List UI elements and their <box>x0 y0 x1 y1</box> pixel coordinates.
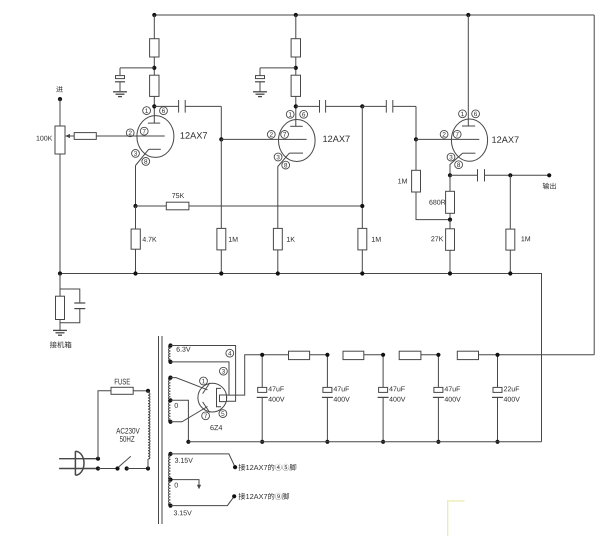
capacitor filter 3 47uF <box>378 353 389 444</box>
terminal heater 12AX7 pins 4-5 <box>233 465 237 469</box>
label 47uF 400V <box>445 386 461 401</box>
rectifier 6Z4 <box>198 383 227 413</box>
node plate V1 <box>152 104 156 108</box>
wire fuse to transformer <box>133 390 148 392</box>
label 1M NFB <box>372 237 381 242</box>
wire ground rail <box>60 274 542 442</box>
wire cathode V1 down <box>135 166 137 207</box>
wire 3.15V upper to terminal <box>171 454 236 467</box>
wire HV centertap to ground <box>171 400 189 442</box>
wire B+ feed from filter <box>498 354 595 356</box>
node plug lower <box>96 466 100 470</box>
node decoupling tap V1 <box>152 66 156 70</box>
node centertap ground <box>186 440 190 444</box>
node plate V2 <box>294 104 298 108</box>
label heater terminal A (CJK) <box>239 464 297 471</box>
switch mains <box>98 456 148 470</box>
pin labels 6Z4 <box>200 349 234 419</box>
wire grid V2 <box>221 138 306 140</box>
ground chassis <box>53 330 67 335</box>
label 6Z4 <box>210 425 222 430</box>
wire cathode V2 down <box>277 167 279 229</box>
ground decoupling V2 <box>253 92 267 97</box>
resistor grid stopper V1 <box>74 133 96 140</box>
node grid V2 <box>219 137 223 141</box>
resistor 1M grid leak V2 <box>217 139 226 273</box>
wire plate V3 <box>467 15 469 126</box>
transformer core <box>159 336 163 524</box>
transformer winding 3.15V lower <box>168 480 172 508</box>
wire heater A to pin4 <box>171 346 236 402</box>
plug AC mains <box>59 451 98 475</box>
resistor 27K <box>446 220 455 274</box>
label 47uF 400V <box>389 386 405 401</box>
node NFB <box>360 104 364 108</box>
label 22uF 400V <box>504 386 520 401</box>
terminal heater 12AX7 pin 9 <box>232 494 236 498</box>
resistor plate upper V2 <box>291 39 300 57</box>
transformer primary winding <box>148 391 150 469</box>
resistor 1M output <box>506 175 515 273</box>
wire B+ right side <box>593 15 595 355</box>
node primary top <box>146 389 150 393</box>
node decoupling tap V2 <box>294 66 298 70</box>
resistor 1M NFB <box>358 228 367 273</box>
triode V3 12AX7 <box>416 119 488 175</box>
pin labels V2 <box>267 110 307 169</box>
capacitor output C4 <box>450 169 549 181</box>
label 12AX7 V2 <box>323 136 349 142</box>
node B+ rail stage2 <box>294 13 298 17</box>
label 680R <box>429 200 445 205</box>
capacitor coupling C3 <box>362 100 416 113</box>
resistor plate lower V2 <box>291 75 300 96</box>
wire heater B to pin3 <box>171 362 230 395</box>
node cathode V3 <box>448 173 452 177</box>
resistor 75K feedback <box>136 202 363 210</box>
label 0 heater centertap <box>175 483 178 488</box>
label 75K <box>172 193 184 198</box>
transformer winding 3.15V upper <box>168 452 172 480</box>
capacitor filter 2 47uF <box>322 353 333 444</box>
label input (CJK jin) <box>56 86 62 92</box>
node ground rail 27K <box>448 271 452 275</box>
node ground rail 1M NFB <box>360 271 364 275</box>
label FUSE <box>115 379 130 385</box>
wire B+ top rail <box>154 14 594 16</box>
label heater terminal B (CJK) <box>239 493 289 500</box>
label 3.15V upper <box>175 458 193 463</box>
transformer winding HV <box>168 376 172 424</box>
wire HV top to plate1 6Z4 <box>171 378 208 390</box>
node ground rail 1M V2 <box>219 271 223 275</box>
label 27K <box>431 236 443 241</box>
node cathode V1 <box>133 204 137 208</box>
pin labels V1 <box>126 107 167 166</box>
wire PSU ground rail <box>188 441 541 443</box>
label 50HZ <box>120 436 135 442</box>
node ground rail 1M out <box>508 271 512 275</box>
label 1M grid V3 <box>398 179 407 184</box>
wire plate resistor to plate V1 <box>153 96 155 123</box>
capacitor filter 1 47uF <box>257 353 268 444</box>
resistor plate upper V1 <box>150 39 159 57</box>
label 3.15V lower <box>174 510 192 515</box>
resistor 4.7K cathode V1 <box>131 206 140 274</box>
resistor 680R <box>446 175 455 219</box>
label 0 HV centertap <box>175 403 178 408</box>
label output (CJK shuchu) <box>543 183 556 189</box>
label 47uF 400V <box>268 386 284 401</box>
capacitor filter 5 22uF <box>492 353 503 444</box>
terminal output <box>547 173 551 177</box>
label 1K <box>287 237 295 242</box>
label 12AX7 V3 <box>492 136 518 142</box>
label 12AX7 V1 <box>181 132 207 138</box>
terminal input <box>58 97 62 101</box>
node ground rail pot <box>58 271 62 275</box>
pin labels V3 <box>440 110 479 169</box>
node ground rail 4.7K <box>133 271 137 275</box>
wire to grid node V2 <box>220 106 222 139</box>
wire plug to fuse <box>98 391 111 459</box>
triode V2 12AX7 <box>278 120 315 167</box>
node output divider <box>508 173 512 177</box>
node primary bottom <box>146 466 150 470</box>
node plug upper <box>96 457 100 461</box>
resistors B+ filter chain <box>262 351 497 359</box>
resistor plate lower V1 <box>150 75 159 96</box>
wire 3.15V lower to terminal <box>171 496 235 505</box>
node ground rail 1K <box>276 271 280 275</box>
wire pot to ground rail <box>59 154 61 274</box>
wire to grid node V3 <box>415 106 417 139</box>
capacitor chassis <box>74 303 85 309</box>
wire rail to plate resistor V2 <box>295 15 297 39</box>
capacitor coupling C2 <box>296 100 363 113</box>
pot wiper arrow <box>65 134 74 138</box>
capacitor decoupling V2 <box>255 68 296 92</box>
label 47uF 400V <box>334 386 350 401</box>
label 6.3V <box>177 347 191 352</box>
wire input to volume pot <box>59 99 61 126</box>
resistor 1M grid V3 <box>412 139 450 219</box>
capacitor coupling C1 <box>154 100 221 113</box>
potentiometer 100K body <box>55 126 65 154</box>
resistor 1K cathode V2 <box>273 228 282 273</box>
fuse FUSE <box>111 387 133 394</box>
wire rail to plate resistor V1 <box>153 15 155 39</box>
wire heater centertap arrow <box>168 478 201 490</box>
wire NFB vertical <box>361 106 363 228</box>
wire cathode to B+ filter <box>227 355 263 395</box>
label 100K <box>37 136 53 141</box>
wire between plate resistors V2 <box>295 57 297 75</box>
ground decoupling V1 <box>113 92 127 97</box>
node NFB to 75K <box>360 204 364 208</box>
label AC230V <box>116 428 139 434</box>
capacitor decoupling V1 <box>115 68 154 92</box>
wire chassis network <box>60 274 80 331</box>
wire HV bottom to plate2 6Z4 <box>171 407 208 422</box>
node grid V3 <box>414 137 418 141</box>
node B+ rail stage3 <box>466 13 470 17</box>
node B+ rail stage1 <box>152 13 156 17</box>
resistor chassis <box>56 296 65 319</box>
label 4.7K <box>142 237 156 242</box>
wire between plate resistors V1 <box>153 57 155 75</box>
wire plate resistor to plate V2 <box>295 96 297 126</box>
label 1M grid V2 <box>229 237 238 242</box>
triode V1 12AX7 <box>96 116 174 166</box>
node 680R/27K junction <box>448 218 452 222</box>
label 1M output <box>521 236 530 241</box>
label chassis (CJK jijixiang) <box>50 341 72 348</box>
capacitor filter 4 47uF <box>433 353 444 444</box>
transformer winding 6.3V <box>168 343 172 364</box>
